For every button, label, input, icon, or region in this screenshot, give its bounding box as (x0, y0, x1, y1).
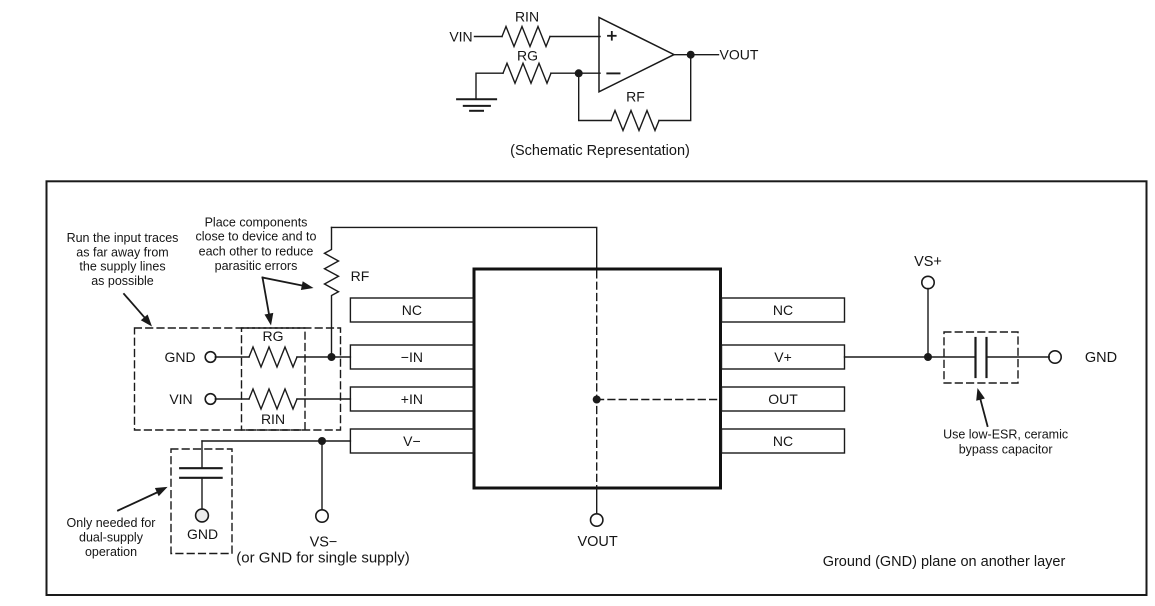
dashed region around C1 (171, 449, 232, 554)
svg-text:(or GND for single supply): (or GND for single supply) (236, 550, 409, 567)
svg-text:the supply lines: the supply lines (79, 260, 165, 274)
pin 1 NC (left) (350, 298, 473, 322)
wire V+ net (845, 356, 976, 358)
terminal VIN pad (205, 394, 216, 405)
terminal VS+ pad (922, 276, 934, 288)
svg-text:Only needed for: Only needed for (67, 516, 156, 530)
note: place components close to device (196, 215, 317, 272)
internal VOUT trace (dashed vertical) (596, 271, 598, 486)
arrow from dual-supply note (118, 492, 158, 511)
pin 6 OUT (722, 387, 845, 411)
svg-text:VS−: VS− (310, 535, 338, 551)
terminal VOUT pad (591, 514, 603, 526)
svg-text:NC: NC (773, 433, 793, 449)
arrow from place-components note to RG (263, 278, 270, 318)
svg-text:RF: RF (626, 89, 645, 105)
terminal GND pad (205, 352, 216, 363)
pin 2 -IN (350, 345, 473, 369)
wire feedback up-right (659, 55, 691, 121)
wire V- net (202, 440, 350, 442)
pin 7 V+ (722, 345, 845, 369)
note: run input traces away from supply (67, 231, 179, 288)
svg-text:RIN: RIN (261, 411, 285, 427)
wire VIN to RIN (475, 36, 503, 38)
resistor RIN (layout) (249, 389, 297, 409)
junction RG RF -IN (328, 353, 336, 361)
svg-text:−IN: −IN (401, 349, 423, 365)
wire RIN to op-amp + input (550, 36, 600, 38)
junction V- VS- (318, 437, 326, 445)
svg-text:Use low-ESR, ceramic: Use low-ESR, ceramic (943, 428, 1068, 442)
svg-text:Run the input traces: Run the input traces (67, 231, 179, 245)
wire VOUT stem (596, 488, 598, 514)
svg-text:VIN: VIN (169, 391, 192, 407)
wire RG to op-amp - input (551, 72, 600, 74)
pin + (noninverting input) (608, 32, 616, 40)
svg-text:+IN: +IN (401, 391, 423, 407)
board outline frame (47, 181, 1147, 595)
terminal VS- pad (316, 510, 328, 522)
pin 5 NC (right bottom) (722, 429, 845, 453)
wire RF top to VOUT trace (332, 227, 597, 269)
dashed region around RG RIN components (242, 328, 306, 430)
junction internal via (593, 396, 601, 404)
wire op-amp output (674, 54, 719, 56)
resistor RF (layout) (325, 227, 339, 357)
pin 8 NC (right top) (722, 298, 845, 322)
ground (457, 99, 496, 111)
terminal GND pad (right) (1049, 351, 1061, 363)
wire RIN to +IN pin (297, 398, 350, 400)
resistor RG (503, 63, 551, 83)
svg-text:VOUT: VOUT (720, 47, 759, 63)
pin 4 V- (350, 429, 473, 453)
resistor RG (layout) (249, 347, 297, 367)
svg-text:VOUT: VOUT (577, 534, 617, 550)
svg-text:RIN: RIN (515, 9, 539, 25)
wire VS+ stem (927, 289, 929, 358)
wire RG to -IN pin (297, 356, 350, 358)
note: only needed for dual-supply (67, 516, 156, 559)
arrow from place-components note to RF (263, 278, 304, 286)
svg-text:RF: RF (351, 268, 370, 284)
svg-text:Ground (GND) plane on another: Ground (GND) plane on another layer (823, 554, 1066, 570)
wire GND pad to RG (215, 356, 249, 358)
svg-text:each other to reduce: each other to reduce (199, 244, 314, 258)
wire VIN pad to RIN (215, 398, 249, 400)
svg-text:V−: V− (403, 433, 421, 449)
note: use low-ESR ceramic bypass capacitor (943, 428, 1068, 457)
junction VS+ bypass (924, 353, 932, 361)
svg-text:close to device and to: close to device and to (196, 230, 317, 244)
svg-text:GND: GND (1085, 350, 1117, 366)
capacitor C2 (ceramic bypass) (976, 338, 987, 377)
svg-text:GND: GND (164, 349, 195, 365)
wire C2 to GND pad (987, 356, 1050, 358)
dashed region around C2 (944, 332, 1018, 383)
svg-text:NC: NC (773, 302, 793, 318)
svg-text:V+: V+ (774, 349, 792, 365)
junction at output (687, 51, 695, 59)
pin 3 +IN (350, 387, 473, 411)
wire VS- stem (321, 441, 323, 510)
resistor RIN (502, 27, 550, 47)
svg-text:VS+: VS+ (914, 254, 942, 270)
IC U1 package body (474, 269, 721, 488)
wire feedback down-left (579, 73, 611, 120)
arrow from run-input-traces note (124, 294, 145, 318)
svg-text:GND: GND (187, 526, 218, 542)
arrow from bypass-capacitor note (980, 397, 988, 426)
svg-text:RG: RG (263, 328, 284, 344)
terminal GND pad (dual supply) (196, 509, 209, 522)
wire C1 to GND pad (201, 478, 203, 510)
junction at inverting input (575, 69, 583, 77)
svg-text:dual-supply: dual-supply (79, 531, 144, 545)
svg-text:NC: NC (402, 302, 422, 318)
wire V- to bypass cap C1 (201, 441, 203, 468)
svg-text:as possible: as possible (91, 274, 154, 288)
capacitor C1 (dual-supply bypass) (180, 468, 221, 478)
svg-text:RG: RG (517, 48, 538, 64)
wire ground to RG (476, 73, 503, 99)
internal OUT trace (dashed horizontal) (597, 399, 720, 401)
svg-text:VIN: VIN (449, 29, 472, 45)
pin - (inverting input) (607, 72, 619, 74)
svg-text:OUT: OUT (768, 391, 798, 407)
svg-text:as far away from: as far away from (76, 245, 168, 259)
op-amp U1 (599, 17, 674, 91)
svg-text:operation: operation (85, 545, 137, 559)
svg-text:parasitic errors: parasitic errors (215, 259, 298, 273)
svg-text:bypass capacitor: bypass capacitor (959, 443, 1053, 457)
svg-text:(Schematic Representation): (Schematic Representation) (510, 143, 690, 159)
resistor RF (611, 111, 659, 131)
svg-text:Place components: Place components (205, 215, 308, 229)
dashed keep-apart region around input traces (135, 328, 341, 430)
